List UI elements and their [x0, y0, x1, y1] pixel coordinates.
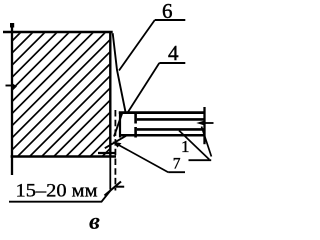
floor panel top line	[119, 111, 206, 114]
floor panel line 3	[137, 128, 206, 131]
gap dashed line	[114, 110, 116, 191]
leader 6	[119, 20, 155, 71]
support slant	[105, 136, 126, 148]
wall bottom edge	[11, 155, 116, 158]
leader 7 arrowhead	[113, 142, 122, 148]
leader 1b	[202, 127, 212, 157]
floor panel bottom line	[120, 134, 206, 137]
label 6 underline	[155, 19, 186, 21]
joint slant (sealant edge)	[113, 33, 126, 112]
wall right edge	[109, 31, 111, 158]
svg-text:4: 4	[168, 41, 179, 65]
label 4 underline	[159, 62, 185, 64]
axis line top cap	[10, 23, 14, 28]
support bar	[98, 152, 116, 154]
svg-text:15–20 мм: 15–20 мм	[16, 180, 98, 201]
wall top edge	[3, 31, 113, 34]
wall face extension line	[109, 158, 111, 190]
dimension tick 45deg	[105, 182, 122, 196]
axis tick dash	[6, 85, 12, 87]
label 1 underline	[189, 159, 212, 161]
leader 1a	[179, 131, 209, 160]
wall axis line (left vertical)	[11, 25, 13, 176]
leader 7	[115, 143, 168, 172]
axis tick arrowhead	[13, 84, 17, 90]
dimension underline	[9, 190, 111, 201]
floor panel line 2	[137, 118, 206, 121]
dimension dash	[116, 186, 124, 188]
panel left end vertical	[119, 112, 121, 138]
anchor dashed vertical	[134, 112, 137, 138]
anchor arrow	[202, 122, 214, 124]
svg-text:в: в	[89, 208, 100, 235]
label 7 underline	[168, 171, 185, 173]
panel right end vertical	[203, 107, 205, 144]
leader 4	[128, 63, 159, 112]
joint slant lower	[114, 113, 122, 137]
svg-text:7: 7	[173, 155, 181, 172]
wall hatching	[0, 32, 239, 172]
